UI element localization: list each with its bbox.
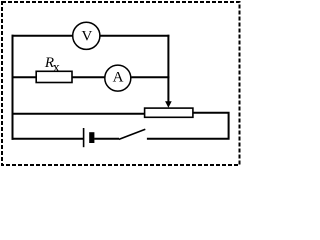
voltmeter V (73, 22, 100, 49)
battery (84, 128, 95, 147)
wire rheostat right terminal (147, 113, 229, 139)
wire left vertical to rheostat (12, 113, 145, 115)
wire left vertical (12, 35, 14, 140)
wire resistor to ammeter (72, 76, 105, 78)
switch (119, 129, 145, 139)
wire battery to switch (94, 138, 119, 140)
wire middle left horizontal (12, 76, 37, 78)
wire top left horizontal (12, 35, 73, 37)
wire right vertical with arrow to rheostat slider (165, 35, 172, 108)
rheostat (sliding resistor) (145, 108, 193, 117)
svg-text:A: A (113, 70, 124, 86)
wire bottom left horizontal (12, 138, 84, 140)
wire top right horizontal (101, 35, 170, 37)
svg-text:V: V (81, 29, 92, 45)
wire ammeter to right vertical (131, 76, 169, 78)
ammeter A (105, 65, 131, 91)
svg-text:x: x (53, 60, 60, 75)
resistor Rx (36, 55, 72, 82)
